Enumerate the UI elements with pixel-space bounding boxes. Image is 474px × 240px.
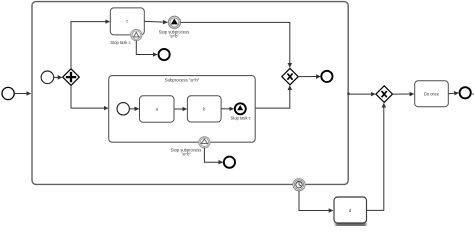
- task d: [334, 197, 367, 223]
- exclusive gateway G2: [282, 68, 298, 84]
- wire task d to gateway G3: [367, 103, 384, 210]
- end event E5: [460, 87, 471, 98]
- shadow of task d: [336, 222, 367, 228]
- svg-text:Subprocess "a+b": Subprocess "a+b": [165, 77, 200, 82]
- start event S2 (inner): [41, 71, 54, 84]
- wire timer B3 to task d: [299, 191, 333, 211]
- wire G1 to task c: [71, 22, 109, 69]
- boundary escalation event B2 on subprocess: [199, 137, 210, 148]
- wire S2 to parallel gateway: [54, 76, 62, 78]
- wire G3 to task Do once: [393, 93, 414, 95]
- expanded process box: [32, 2, 348, 185]
- task a: [140, 96, 175, 122]
- escalation throw event T1: [168, 16, 180, 28]
- svg-text:"a+b": "a+b": [169, 34, 179, 39]
- timer boundary event B3 on process box: [293, 179, 305, 191]
- cropped connector stub at right edge: [472, 93, 474, 95]
- svg-text:Stop task c: Stop task c: [110, 40, 130, 45]
- wire S3 to task a: [130, 108, 139, 110]
- wire task a to task b: [174, 108, 186, 110]
- task b: [187, 96, 221, 122]
- boundary escalation event B1 on task c: [131, 29, 142, 40]
- exclusive gateway G3: [376, 86, 393, 103]
- subprocess box a+b: [109, 76, 256, 143]
- svg-text:c: c: [126, 19, 128, 24]
- task c: [110, 8, 144, 35]
- end event E3: [321, 71, 332, 82]
- svg-text:Stop task c: Stop task c: [230, 115, 250, 120]
- start event S3 (subprocess): [117, 103, 129, 115]
- wire B2 to end event E4: [204, 148, 222, 162]
- task Do once: [415, 81, 449, 107]
- wire B1 to end event E1: [136, 41, 157, 55]
- wire Do once to end event E5: [449, 92, 459, 95]
- wire S1 to process box: [14, 93, 31, 95]
- wire G2 to end event E3: [298, 76, 320, 78]
- parallel gateway G1: [63, 69, 80, 86]
- wire subprocess to gateway G2: [255, 86, 289, 108]
- start event S1 (outer): [2, 87, 14, 99]
- end event E1: [159, 49, 170, 60]
- wire G1 to subprocess: [71, 85, 108, 108]
- escalation end event E2: [230, 103, 250, 120]
- wire task b to escalation end event: [221, 108, 233, 110]
- end event E4: [224, 157, 235, 168]
- wire T1 to gateway G2: [181, 22, 290, 67]
- wire task c to escalation throw event: [145, 20, 168, 23]
- wire process box to gateway G3: [348, 93, 375, 95]
- junction dot at process box exit: [347, 93, 349, 95]
- svg-text:"a+b": "a+b": [181, 151, 191, 156]
- svg-text:Do once: Do once: [424, 91, 440, 96]
